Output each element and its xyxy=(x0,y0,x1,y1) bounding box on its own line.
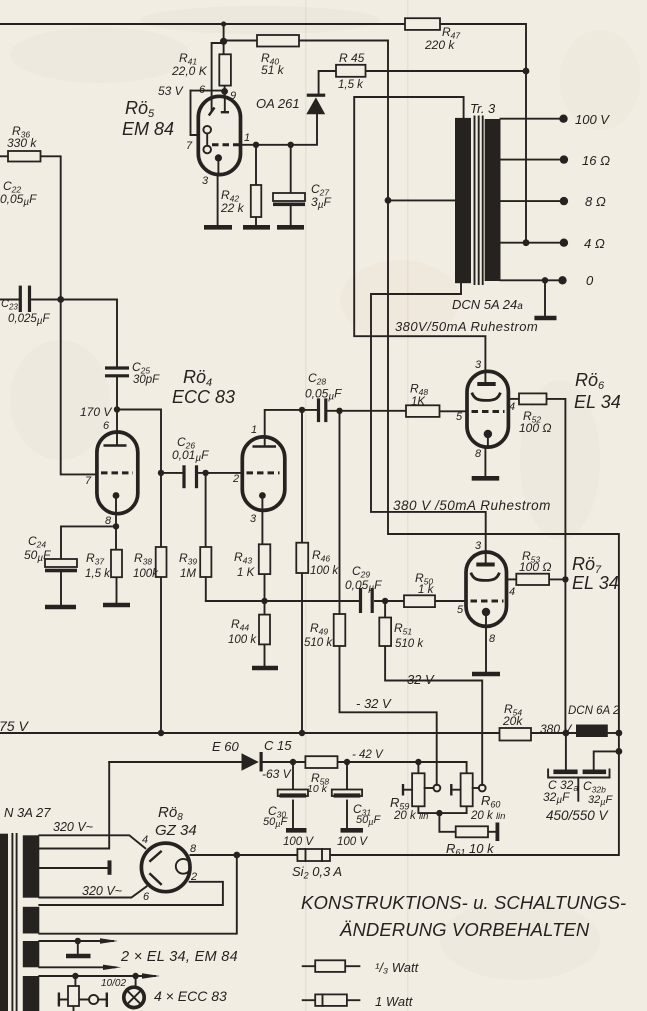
svg-text:1: 1 xyxy=(251,424,257,436)
svg-text:510 k: 510 k xyxy=(395,638,424,650)
svg-text:- 32 V: - 32 V xyxy=(356,696,392,711)
svg-text:Si2 0,3 A: Si2 0,3 A xyxy=(292,864,342,881)
svg-text:51 k: 51 k xyxy=(261,63,285,77)
svg-text:9: 9 xyxy=(230,90,236,102)
svg-text:1M: 1M xyxy=(180,568,196,580)
svg-text:100 V: 100 V xyxy=(575,112,610,127)
svg-text:320 V~: 320 V~ xyxy=(53,820,93,834)
svg-text:380 V: 380 V xyxy=(540,722,572,736)
svg-text:30pF: 30pF xyxy=(133,374,160,386)
svg-text:20k: 20k xyxy=(502,714,523,728)
svg-text:16 Ω: 16 Ω xyxy=(582,153,610,168)
svg-text:ÄNDERUNG VORBEHALTEN: ÄNDERUNG VORBEHALTEN xyxy=(339,919,590,940)
svg-text:4: 4 xyxy=(142,834,148,846)
svg-text:C 15: C 15 xyxy=(264,738,292,753)
svg-text:EL 34: EL 34 xyxy=(572,573,619,593)
svg-text:DCN 6A 2: DCN 6A 2 xyxy=(568,705,620,717)
svg-text:E 60: E 60 xyxy=(212,739,240,754)
svg-text:4: 4 xyxy=(509,401,515,413)
svg-text:1,5 k: 1,5 k xyxy=(85,568,111,580)
svg-text:8: 8 xyxy=(475,448,482,460)
svg-text:220 k: 220 k xyxy=(424,38,455,52)
svg-text:OA 261: OA 261 xyxy=(256,96,300,111)
svg-text:380 V /50mA Ruhestrom: 380 V /50mA Ruhestrom xyxy=(393,498,551,513)
svg-text:100 Ω: 100 Ω xyxy=(519,421,551,435)
svg-text:320 V~: 320 V~ xyxy=(82,884,122,898)
svg-text:3: 3 xyxy=(475,540,482,552)
svg-text:7: 7 xyxy=(186,140,193,152)
svg-text:53 V: 53 V xyxy=(158,84,184,98)
svg-text:1K: 1K xyxy=(411,396,426,408)
svg-text:100 V: 100 V xyxy=(337,836,368,848)
svg-text:100k: 100k xyxy=(133,568,159,580)
svg-text:100 Ω: 100 Ω xyxy=(519,560,551,574)
svg-text:1 K: 1 K xyxy=(237,567,256,579)
svg-text:KONSTRUKTIONS- u. SCHALTUNGS-: KONSTRUKTIONS- u. SCHALTUNGS- xyxy=(301,892,626,913)
svg-text:EL 34: EL 34 xyxy=(574,392,621,412)
svg-text:R61 10 k: R61 10 k xyxy=(446,841,495,858)
svg-text:5: 5 xyxy=(456,411,463,423)
svg-text:Tr. 3: Tr. 3 xyxy=(470,101,496,116)
svg-text:0,05µF: 0,05µF xyxy=(0,192,37,208)
svg-text:10 k: 10 k xyxy=(307,783,328,795)
svg-text:- 32 V: - 32 V xyxy=(399,672,435,687)
svg-text:ECC 83: ECC 83 xyxy=(172,387,235,407)
svg-text:8: 8 xyxy=(489,633,496,645)
svg-text:7: 7 xyxy=(85,475,92,487)
svg-text:¹/₃ Watt: ¹/₃ Watt xyxy=(375,960,420,975)
svg-text:4 × ECC 83: 4 × ECC 83 xyxy=(154,988,227,1004)
svg-text:8: 8 xyxy=(190,843,197,855)
svg-text:1,5 k: 1,5 k xyxy=(338,79,364,91)
svg-text:6: 6 xyxy=(199,84,206,96)
svg-text:3: 3 xyxy=(250,513,257,525)
svg-text:8 Ω: 8 Ω xyxy=(585,194,606,209)
svg-text:4 Ω: 4 Ω xyxy=(584,236,605,251)
svg-text:2 × EL 34, EM 84: 2 × EL 34, EM 84 xyxy=(120,949,238,965)
svg-text:1 Watt: 1 Watt xyxy=(375,994,414,1009)
svg-text:330 k: 330 k xyxy=(7,136,37,150)
svg-text:5: 5 xyxy=(457,604,464,616)
svg-text:6: 6 xyxy=(103,420,110,432)
svg-text:0,05µF: 0,05µF xyxy=(345,578,382,594)
svg-text:0,01µF: 0,01µF xyxy=(172,448,209,464)
svg-text:0: 0 xyxy=(586,273,594,288)
svg-text:22 k: 22 k xyxy=(220,201,245,215)
svg-text:170 V: 170 V xyxy=(80,405,112,419)
svg-text:DCN 5A 24a: DCN 5A 24a xyxy=(452,297,523,312)
svg-text:75 V: 75 V xyxy=(0,718,29,734)
svg-text:2: 2 xyxy=(190,871,197,883)
svg-text:1: 1 xyxy=(244,132,250,144)
svg-text:N 3A 27: N 3A 27 xyxy=(4,805,51,820)
svg-text:100 k: 100 k xyxy=(310,565,339,577)
svg-text:2: 2 xyxy=(232,473,239,485)
svg-text:20 k lin: 20 k lin xyxy=(393,810,428,822)
svg-text:20 k lin: 20 k lin xyxy=(470,810,505,822)
svg-text:- 42 V: - 42 V xyxy=(352,749,384,761)
svg-text:450/550 V: 450/550 V xyxy=(546,808,610,823)
svg-text:EM 84: EM 84 xyxy=(122,119,174,139)
svg-text:100 k: 100 k xyxy=(228,634,257,646)
svg-text:0,025µF: 0,025µF xyxy=(8,313,51,327)
svg-text:8: 8 xyxy=(105,515,112,527)
svg-text:1 k: 1 k xyxy=(418,584,435,596)
svg-text:380V/50mA Ruhestrom: 380V/50mA Ruhestrom xyxy=(395,319,538,334)
svg-text:22,0 K: 22,0 K xyxy=(171,64,208,78)
svg-text:0,05µF: 0,05µF xyxy=(305,387,342,403)
svg-text:510 k: 510 k xyxy=(304,637,333,649)
svg-text:100 V: 100 V xyxy=(283,836,314,848)
svg-text:10/02: 10/02 xyxy=(101,978,126,989)
svg-text:3: 3 xyxy=(202,175,209,187)
svg-text:3: 3 xyxy=(475,359,482,371)
svg-text:4: 4 xyxy=(509,586,515,598)
svg-text:6: 6 xyxy=(143,891,150,903)
svg-text:R 45: R 45 xyxy=(339,51,365,65)
svg-text:GZ 34: GZ 34 xyxy=(155,822,197,839)
svg-text:-63 V: -63 V xyxy=(262,767,292,781)
